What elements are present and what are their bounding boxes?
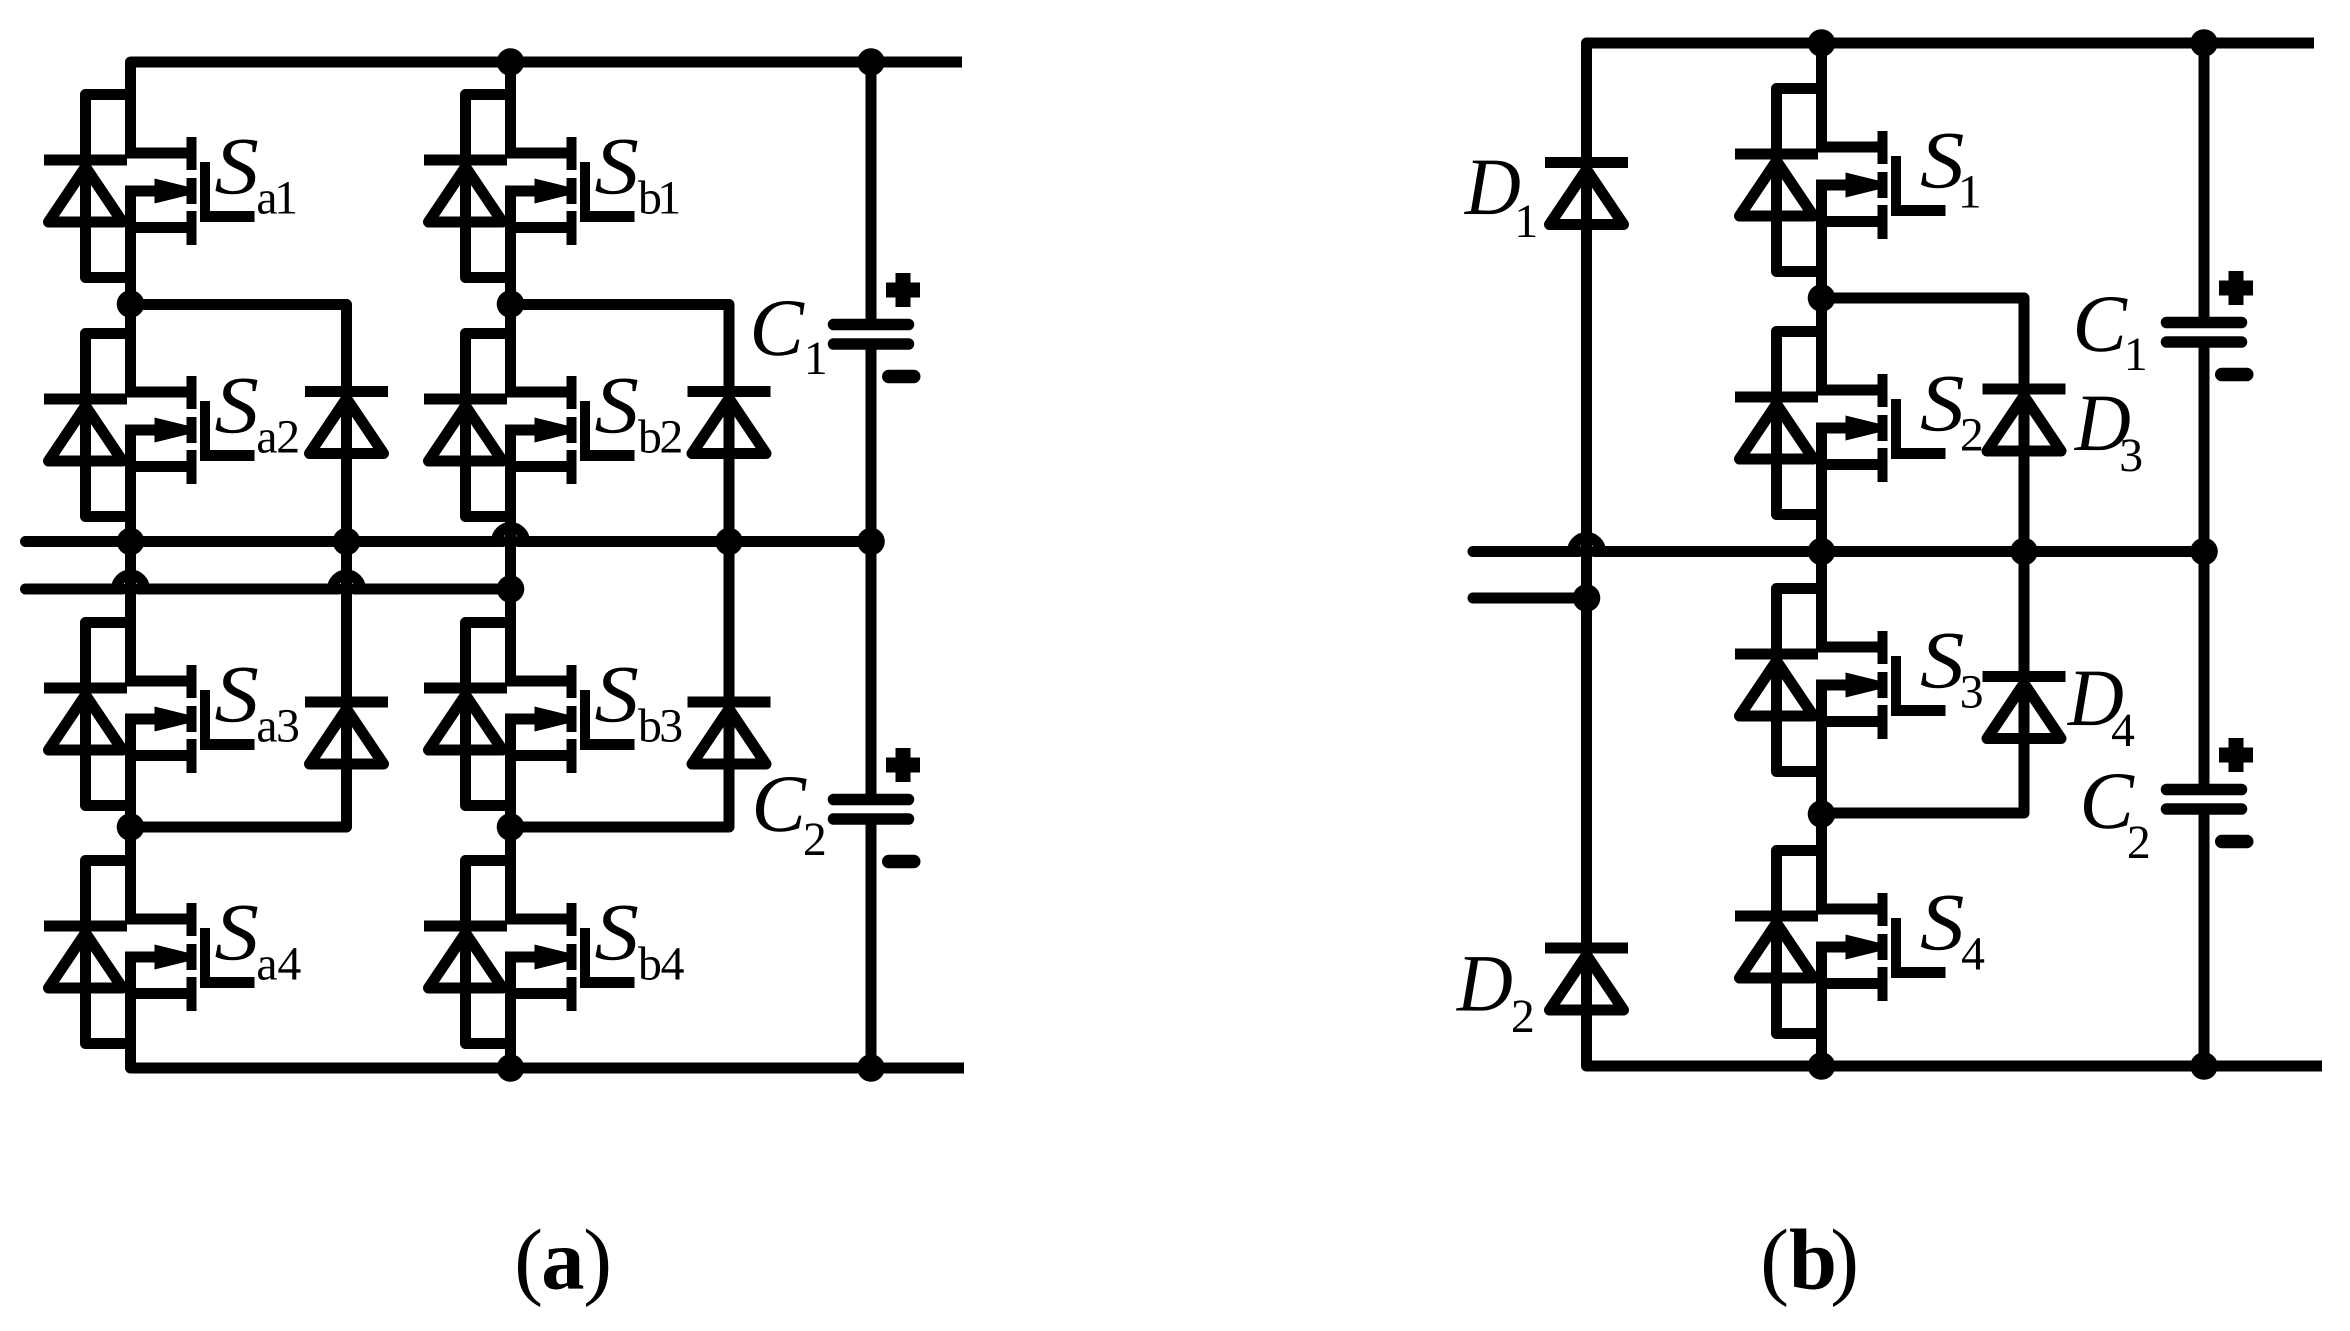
transistor Sb1 (switch Sb1) xyxy=(511,137,635,245)
wire: input line 2 xyxy=(26,584,123,595)
wire: antiparallel diode loop of switch S1 xyxy=(1777,89,1822,272)
transistor S2 (switch S2) xyxy=(1822,374,1946,482)
label Sa2 xyxy=(216,379,298,453)
antiparallel diode of switch Sa3 xyxy=(44,683,127,694)
transistor Sa1 (switch Sa1) xyxy=(131,137,255,245)
top DC rail of diagram (a) xyxy=(131,62,963,159)
label S2 xyxy=(1921,377,1981,451)
wire: antiparallel diode loop of switch Sa4 xyxy=(86,861,131,1044)
junction node xyxy=(715,528,743,556)
wire: phase-a upper clamp branch xyxy=(131,305,347,542)
label Sa1 xyxy=(216,140,296,214)
junction node xyxy=(497,813,525,841)
label D4 xyxy=(2067,672,2134,746)
junction node xyxy=(117,813,145,841)
wire crossing hop xyxy=(497,528,525,542)
phase-a upper clamp diode xyxy=(305,386,388,397)
wire: clamp branch with D4 xyxy=(1822,552,2025,814)
label Sa3 xyxy=(216,668,299,742)
junction node xyxy=(497,1054,525,1082)
top DC rail, input diode column and bottom DC rail of diagram (b) xyxy=(1587,43,2323,1066)
diode D2 xyxy=(1545,943,1628,954)
label Sb3 xyxy=(596,668,682,742)
junction node xyxy=(2190,29,2218,57)
label C1 xyxy=(754,301,825,374)
antiparallel diode of switch S1 xyxy=(1735,149,1818,160)
antiparallel diode of switch Sb2 xyxy=(424,394,507,405)
label C2 (b) xyxy=(2084,774,2148,858)
wire: antiparallel diode loop of switch S2 xyxy=(1777,332,1822,515)
transistor S4 (switch S4) xyxy=(1822,893,1946,1001)
wire: phase-b lower clamp branch xyxy=(511,542,730,828)
minus polarity mark xyxy=(889,855,914,869)
label Sb1 xyxy=(596,140,679,214)
antiparallel diode of switch Sb3 xyxy=(424,683,507,694)
junction node xyxy=(1808,800,1836,828)
label D1 xyxy=(1464,161,1535,237)
transistor S3 (switch S3) xyxy=(1822,631,1946,739)
wire crossing hop xyxy=(1573,538,1601,552)
junction node xyxy=(1808,284,1836,312)
label D3 xyxy=(2074,397,2141,472)
label C2 xyxy=(756,777,824,855)
transistor Sa2 (switch Sa2) xyxy=(131,376,255,484)
junction node xyxy=(1808,538,1836,566)
caption (a) xyxy=(518,1229,608,1307)
wire: antiparallel diode loop of switch Sb3 xyxy=(466,623,511,806)
phase-a lower clamp diode xyxy=(305,697,388,708)
wire: antiparallel diode loop of switch Sb2 xyxy=(466,334,511,517)
diode D1 xyxy=(1545,157,1628,168)
antiparallel diode of switch S4 xyxy=(1735,911,1818,922)
junction node xyxy=(497,575,525,603)
wire: input line 1 xyxy=(26,536,503,547)
label S3 xyxy=(1921,634,1982,708)
plus polarity mark xyxy=(886,283,920,298)
wire: input line 1 of diagram (b) xyxy=(1473,546,1579,557)
transistor Sa3 (switch Sa3) xyxy=(131,665,255,773)
transistor Sa4 (switch Sa4) xyxy=(131,903,255,1011)
antiparallel diode of switch Sa2 xyxy=(44,394,127,405)
antiparallel diode of switch Sa1 xyxy=(44,155,127,166)
antiparallel diode of switch Sb4 xyxy=(424,921,507,932)
label Sa4 xyxy=(216,906,301,980)
label D2 xyxy=(1456,957,1532,1032)
junction node xyxy=(857,1054,885,1082)
label S4 xyxy=(1921,896,1984,970)
junction node xyxy=(333,528,361,556)
wire: DC bus of diagram (a) xyxy=(866,62,877,325)
wire: phase-b switch branch xyxy=(505,62,516,159)
phase-b lower clamp diode xyxy=(688,697,771,708)
junction node xyxy=(2190,1052,2218,1080)
capacitor C1 xyxy=(834,319,909,331)
junction node xyxy=(1808,1052,1836,1080)
wire: antiparallel diode loop of switch S3 xyxy=(1777,589,1822,772)
wire: phase-a switch branch xyxy=(125,186,136,398)
minus polarity mark xyxy=(2222,835,2247,849)
junction node xyxy=(1573,584,1601,612)
junction node xyxy=(857,528,885,556)
wire: input line 2 stub xyxy=(1473,593,1587,604)
transistor Sb4 (switch Sb4) xyxy=(511,903,635,1011)
plus polarity mark xyxy=(886,758,920,773)
capacitor C2 xyxy=(834,794,909,806)
phase-b upper clamp diode xyxy=(688,386,771,397)
transistor S1 (switch S1) xyxy=(1822,131,1946,239)
wire: antiparallel diode loop of switch Sa1 xyxy=(86,95,131,278)
minus polarity mark xyxy=(889,370,914,384)
wire: DC bus of diagram (b) xyxy=(2199,43,2210,323)
wire: phase-a lower clamp branch xyxy=(131,542,347,828)
bottom DC rail of diagram (a) xyxy=(131,952,965,1069)
wire crossing hop xyxy=(117,575,145,589)
wire: antiparallel diode loop of switch Sb1 xyxy=(466,95,511,278)
wire: phase-b upper clamp branch xyxy=(511,305,730,542)
junction node xyxy=(2010,538,2038,566)
antiparallel diode of switch Sa4 xyxy=(44,921,127,932)
junction node xyxy=(857,48,885,76)
wire: antiparallel diode loop of switch S4 xyxy=(1777,851,1822,1034)
junction node xyxy=(1808,29,1836,57)
label Sb2 xyxy=(596,379,681,453)
label C1 (b) xyxy=(2077,297,2145,370)
wire: switch branch of diagram (b) xyxy=(1816,43,1827,153)
wire: clamp branch with D3 xyxy=(1822,298,2025,552)
transistor Sb2 (switch Sb2) xyxy=(511,376,635,484)
junction node xyxy=(2190,538,2218,566)
wire: antiparallel diode loop of switch Sa2 xyxy=(86,334,131,517)
antiparallel diode of switch Sb1 xyxy=(424,155,507,166)
clamp diode D3 xyxy=(1983,384,2066,395)
caption (b) xyxy=(1764,1229,1855,1307)
plus polarity mark xyxy=(2219,748,2253,763)
junction node xyxy=(117,528,145,556)
junction node xyxy=(117,290,145,318)
junction node xyxy=(497,48,525,76)
junction node xyxy=(497,290,525,318)
label Sb4 xyxy=(596,906,684,980)
label S1 xyxy=(1921,134,1979,208)
clamp diode D4 xyxy=(1983,671,2066,682)
plus polarity mark xyxy=(2219,281,2253,296)
capacitor C1 of diagram (b) xyxy=(2167,317,2242,329)
minus polarity mark xyxy=(2222,368,2247,382)
transistor Sb3 (switch Sb3) xyxy=(511,665,635,773)
capacitor C2 of diagram (b) xyxy=(2167,784,2242,796)
wire: antiparallel diode loop of switch Sb4 xyxy=(466,861,511,1044)
wire: antiparallel diode loop of switch Sa3 xyxy=(86,623,131,806)
antiparallel diode of switch S2 xyxy=(1735,392,1818,403)
wire crossing hop xyxy=(333,575,361,589)
antiparallel diode of switch S3 xyxy=(1735,649,1818,660)
